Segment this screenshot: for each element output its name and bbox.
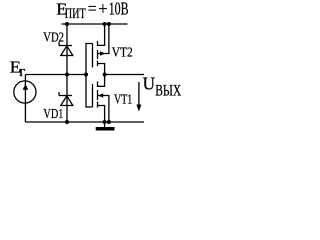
- wire gate bus joining VT2 and VT1 gates: [86, 44, 93, 108]
- VT1 channel dashes: [97, 81, 99, 87]
- VT1 source lead to common rail: [98, 106, 105, 123]
- wire common (bottom) rail: [25, 121, 144, 123]
- VT1 drain lead to output node: [98, 75, 105, 87]
- svg-text:+: +: [98, 0, 107, 19]
- svg-text:ПИТ: ПИТ: [65, 6, 86, 22]
- VT2 gate electrode: [92, 44, 94, 68]
- wire VD2/VD1 bias chain vertical: [66, 24, 68, 122]
- transistor VT1 (lower MOSFET): [93, 75, 109, 123]
- transistor VT2 (upper MOSFET): [93, 24, 109, 75]
- junction: node between VD2 and VD1 on input net: [65, 73, 69, 77]
- junction: VD1 at common rail: [65, 120, 69, 124]
- VT2 substrate lead to +rail: [98, 24, 109, 54]
- ground bar: [96, 127, 115, 131]
- wire Eg branch vertical: [24, 75, 26, 123]
- junction: input net at gate bus: [84, 73, 88, 77]
- source Eg (signal current source circle): [14, 81, 36, 103]
- VT2 channel dashes: [97, 41, 99, 46]
- VT2 substrate arrow (p-channel): [100, 51, 105, 55]
- VT2 source lead to +rail: [98, 24, 105, 45]
- wire input net: Eg to gate bus: [25, 74, 86, 76]
- junction: VT2 substrate at +rail: [107, 22, 111, 26]
- diode VD2 (zener, cathode up): [59, 42, 73, 56]
- junction: VT1 source at common rail: [103, 120, 107, 124]
- VT2 drain lead to output node: [98, 64, 105, 75]
- VT1 substrate lead to common rail: [98, 96, 109, 123]
- svg-text:VD2: VD2: [43, 30, 64, 45]
- svg-text:=: =: [88, 0, 97, 19]
- svg-text:U: U: [143, 74, 156, 94]
- svg-text:г: г: [19, 64, 25, 80]
- VT1 substrate arrow (n-channel): [98, 93, 103, 98]
- svg-text:VD1: VD1: [43, 107, 63, 122]
- diode VD1 (zener, cathode up): [59, 92, 73, 106]
- svg-text:VT2: VT2: [112, 46, 133, 61]
- junction: VT1 substrate at common rail: [107, 120, 111, 124]
- junction: VT2 source at +rail: [103, 22, 107, 26]
- ground stub: [104, 122, 106, 127]
- wire output net to Uout: [105, 74, 144, 76]
- junction: bias chain at +rail: [65, 22, 69, 26]
- wire +Epit supply rail (top): [62, 23, 128, 25]
- Uout voltage arrow line: [138, 82, 140, 106]
- junction: output node: [103, 73, 107, 77]
- Uout voltage arrowhead: [136, 105, 141, 112]
- source Eg arrow: [23, 84, 29, 90]
- svg-text:ВЫХ: ВЫХ: [155, 82, 181, 99]
- svg-text:10В: 10В: [109, 0, 129, 19]
- VT1 gate electrode: [92, 84, 94, 107]
- svg-text:VT1: VT1: [114, 91, 132, 106]
